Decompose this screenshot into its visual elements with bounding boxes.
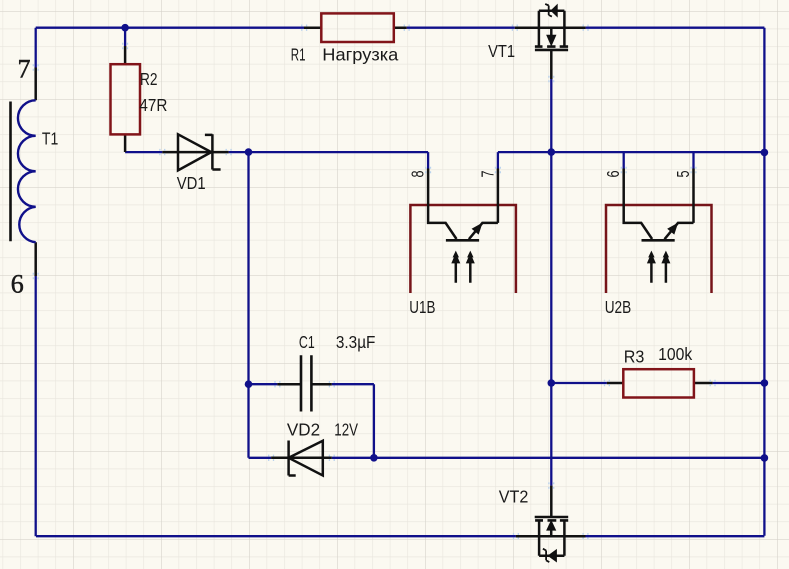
junction at R2 top bbox=[121, 24, 129, 32]
svg-text:U1B: U1B bbox=[409, 297, 435, 317]
wire VD2 row bbox=[249, 457, 765, 459]
resistor R1 bbox=[291, 13, 407, 64]
wire left edge bbox=[35, 28, 37, 537]
svg-text:100k: 100k bbox=[658, 344, 692, 364]
wire center column VD1 to VD2 bbox=[247, 152, 249, 458]
svg-text:R2: R2 bbox=[140, 69, 158, 89]
junction right edge / R3 row bbox=[761, 379, 769, 387]
svg-text:8: 8 bbox=[407, 171, 427, 178]
wire pin7 row to right edge bbox=[498, 152, 765, 168]
MOSFET VT2 bbox=[499, 486, 586, 562]
wire top bus bbox=[36, 27, 765, 29]
svg-text:7: 7 bbox=[478, 171, 498, 178]
capacitor C1 bbox=[277, 332, 375, 412]
resistor R2 bbox=[111, 28, 168, 152]
svg-text:VD2: VD2 bbox=[287, 419, 320, 439]
resistor R3 bbox=[607, 344, 713, 398]
diode VD1 bbox=[162, 134, 228, 193]
zener diode VD2 bbox=[271, 419, 358, 475]
junction right edge / VD2 row bbox=[761, 454, 769, 462]
wire gate column VT1 to VT2 bbox=[550, 79, 552, 486]
junction VD1 cathode node bbox=[245, 148, 253, 156]
wire right edge bbox=[763, 28, 765, 536]
wire VD1 row bbox=[125, 152, 428, 168]
svg-text:VT2: VT2 bbox=[499, 487, 529, 507]
wire C1 row bbox=[249, 384, 374, 458]
junction right edge / pin row bbox=[761, 149, 769, 157]
svg-text:3.3µF: 3.3µF bbox=[336, 332, 376, 352]
junction gate column / R3 row bbox=[548, 379, 556, 387]
svg-text:U2B: U2B bbox=[605, 297, 632, 317]
optocoupler U1B bbox=[407, 169, 516, 318]
svg-text:12V: 12V bbox=[334, 419, 358, 439]
svg-text:6: 6 bbox=[11, 269, 24, 298]
junction C1 left node bbox=[245, 380, 253, 388]
svg-text:6: 6 bbox=[603, 171, 623, 178]
pin end markers pale blue bbox=[33, 25, 715, 540]
wire bottom bus bbox=[36, 535, 764, 537]
MOSFET VT1 bbox=[488, 4, 585, 79]
svg-text:R3: R3 bbox=[624, 346, 645, 366]
optocoupler U2B bbox=[603, 169, 711, 318]
svg-text:VT1: VT1 bbox=[488, 41, 515, 61]
svg-text:C1: C1 bbox=[299, 332, 315, 352]
svg-text:VD1: VD1 bbox=[177, 173, 206, 193]
svg-text:47R: 47R bbox=[139, 95, 167, 115]
transformer T1 bbox=[11, 55, 59, 299]
junction VD2 cathode node bbox=[370, 454, 378, 462]
svg-text:R1: R1 bbox=[291, 44, 306, 64]
svg-text:Нагрузка: Нагрузка bbox=[322, 44, 398, 64]
svg-text:5: 5 bbox=[673, 171, 693, 178]
junction gate column / pin row bbox=[548, 148, 556, 156]
wire R3 row bbox=[551, 382, 764, 384]
svg-text:T1: T1 bbox=[42, 128, 58, 148]
svg-text:7: 7 bbox=[18, 55, 31, 84]
